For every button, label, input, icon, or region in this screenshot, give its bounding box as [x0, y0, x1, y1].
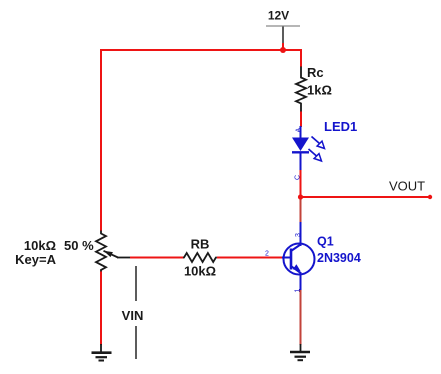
- LED light arrow 1: [312, 137, 325, 149]
- svg-text:Rc: Rc: [307, 65, 324, 80]
- resistor Rc: [296, 65, 332, 113]
- wire emitter to ground: [300, 290, 302, 345]
- wire left vertical: [100, 49, 102, 231]
- ground left: [92, 344, 112, 361]
- label 10kOhm Key=A: [15, 238, 56, 267]
- node VOUT junction: [298, 194, 303, 199]
- power supply 12V: [266, 9, 300, 52]
- svg-text:1kΩ: 1kΩ: [307, 83, 332, 98]
- svg-text:A: A: [296, 128, 303, 133]
- svg-text:2N3904: 2N3904: [317, 251, 361, 265]
- svg-text:VIN: VIN: [122, 308, 144, 323]
- node VOUT endpoint: [428, 195, 432, 199]
- svg-text:3: 3: [295, 233, 302, 237]
- svg-text:12V: 12V: [268, 9, 289, 23]
- wire top horizontal: [101, 49, 301, 51]
- wire collector: [300, 197, 302, 223]
- potentiometer wiper arrow: [104, 251, 132, 258]
- svg-text:50 %: 50 %: [64, 238, 94, 253]
- svg-text:Key=A: Key=A: [15, 252, 56, 267]
- svg-text:Q1: Q1: [317, 235, 334, 249]
- svg-text:10kΩ: 10kΩ: [24, 238, 56, 253]
- wire Rc to LED: [300, 112, 302, 128]
- wire pot bottom to ground: [100, 272, 102, 346]
- LED light arrow 2: [309, 149, 322, 161]
- wire LED to collector node: [300, 170, 302, 198]
- wire RB to base: [217, 257, 282, 259]
- wire top right vertical: [300, 49, 302, 67]
- svg-text:10kΩ: 10kΩ: [184, 264, 216, 279]
- svg-text:RB: RB: [191, 237, 210, 252]
- resistor RB: [183, 237, 217, 279]
- transistor Q1: [282, 222, 361, 291]
- wire wiper to RB: [130, 257, 184, 259]
- wire VOUT: [301, 196, 431, 198]
- potentiometer R1 body: [96, 231, 106, 273]
- VIN annotation line top: [135, 266, 137, 301]
- svg-text:LED1: LED1: [324, 119, 357, 134]
- LED LED1: [292, 119, 357, 171]
- node junction 12V: [280, 47, 286, 53]
- svg-text:VOUT: VOUT: [389, 179, 425, 194]
- VIN annotation line bottom: [135, 326, 137, 359]
- svg-text:2: 2: [265, 251, 269, 258]
- ground right: [290, 344, 310, 360]
